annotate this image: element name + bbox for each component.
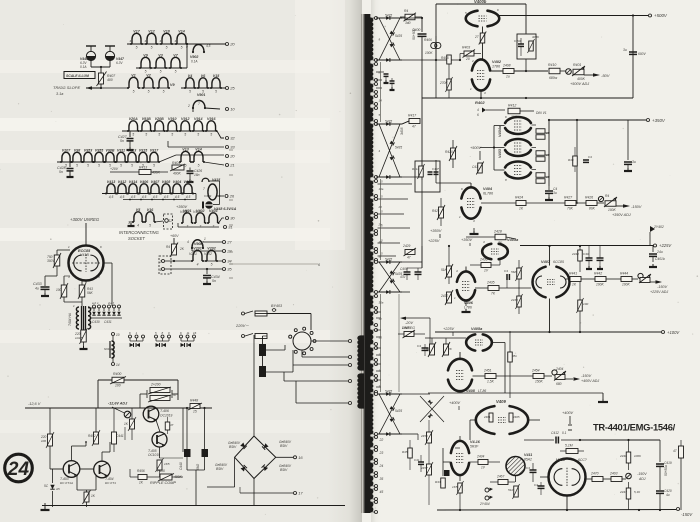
- resistor far right column: [680, 440, 682, 446]
- svg-text:20: 20: [378, 205, 383, 209]
- capacitor C427 5n: [129, 131, 131, 137]
- wire arrow -150V +350V ADJ: [616, 205, 624, 207]
- svg-text:33: 33: [230, 145, 235, 150]
- svg-text:+350V: +350V: [430, 228, 442, 233]
- wire left column y318: [429, 318, 431, 344]
- resistor 2403: [611, 477, 622, 482]
- svg-text:R427: R427: [564, 196, 572, 200]
- terminal +100V: [662, 331, 665, 334]
- wire riser between bridges a: [380, 62, 382, 122]
- tube V404 6L786: [461, 187, 480, 198]
- wire riser between bridges c: [380, 294, 382, 392]
- resistor 220 1W vertical: [48, 434, 53, 446]
- terminal 27: [223, 241, 226, 244]
- wire row B: [136, 67, 187, 69]
- wire arrow -50V: [584, 74, 593, 76]
- resistor 2470: [592, 477, 603, 482]
- svg-text:V405a: V405a: [507, 237, 519, 242]
- winding V409 vertical oval: [208, 184, 217, 200]
- tube V406 L786: [457, 271, 475, 281]
- terminal +350V: [647, 119, 650, 122]
- terminal +500V: [649, 14, 652, 17]
- terminal 26: [225, 195, 228, 198]
- svg-text:V405a: V405a: [471, 326, 483, 331]
- wire frame V409 to lamp: [209, 180, 220, 182]
- svg-text:+500V ADJ: +500V ADJ: [570, 82, 589, 86]
- transformer T401 core: [81, 306, 83, 330]
- svg-text:5: 5: [76, 164, 78, 168]
- wire regulator top loop: [98, 379, 178, 381]
- wire arrow -150V 225adj: [650, 281, 656, 283]
- svg-text:+225V ADJ: +225V ADJ: [650, 290, 668, 294]
- svg-text:50+50u: 50+50u: [412, 28, 416, 40]
- terminal 31: [224, 226, 227, 229]
- svg-text:4,5: 4,5: [186, 195, 191, 199]
- tube V408 LT86: [448, 359, 472, 371]
- transformer TR core lamination lines: [361, 14, 363, 513]
- wire tube grid left: [56, 250, 58, 255]
- potentiometer R404 400K: [172, 165, 184, 170]
- svg-text:6CC?: 6CC?: [578, 458, 587, 462]
- svg-text:1H1B: 1H1B: [75, 336, 83, 340]
- choke winding primary upper: [259, 344, 266, 356]
- svg-text:2470: 2470: [590, 472, 599, 476]
- svg-text:BStV: BStV: [280, 468, 288, 472]
- svg-text:V408: V408: [466, 389, 476, 393]
- svg-text:47: 47: [407, 256, 411, 260]
- svg-text:R442: R442: [594, 272, 602, 276]
- resistor R4 100K vertical: [61, 285, 67, 297]
- svg-text:270K: 270K: [439, 81, 448, 85]
- pot circle -150: [626, 473, 632, 479]
- wire V407 bottom to +100V rail: [549, 299, 551, 333]
- transistor T404 OC KT1: [94, 461, 111, 478]
- wire riser right d: [398, 294, 400, 392]
- resistor 2408 1u: [503, 69, 514, 74]
- svg-text:C441: C441: [116, 434, 124, 438]
- wires tube stack right resistors: [532, 124, 537, 126]
- svg-text:1: 1: [204, 237, 206, 241]
- svg-text:2461: 2461: [483, 415, 491, 419]
- resistor 750 300V: [54, 255, 60, 266]
- wire diamond bottom to ground rail: [253, 479, 255, 506]
- box network C404 R404: [517, 34, 536, 59]
- resistor R456: [138, 475, 147, 480]
- svg-text:14: 14: [116, 363, 120, 367]
- spark-gap diode pairs row: [129, 335, 132, 338]
- wire right vertical from rail: [182, 408, 184, 452]
- resistor 2436 1V: [481, 263, 491, 268]
- fuse BY403 upper: [255, 311, 267, 316]
- svg-text:C41: C41: [414, 458, 420, 462]
- svg-text:1K5: 1K5: [452, 485, 458, 489]
- svg-text:10: 10: [116, 333, 120, 337]
- wire caps to ground rail: [186, 457, 188, 470]
- svg-text:R444: R444: [620, 272, 628, 276]
- terminal 33: [226, 146, 229, 149]
- svg-text:+350V ADJ: +350V ADJ: [612, 213, 631, 217]
- svg-text:3u: 3u: [632, 160, 636, 164]
- edge ticks left page margin: [229, 149, 233, 151]
- svg-text:5435: 5435: [395, 146, 402, 150]
- svg-text:2467: 2467: [496, 475, 505, 479]
- svg-text:21: 21: [229, 163, 234, 168]
- box network R414 C407 C408: [415, 161, 440, 192]
- svg-text:V412: V412: [118, 180, 126, 184]
- svg-text:5: 5: [211, 263, 213, 267]
- svg-text:R45: R45: [402, 450, 408, 454]
- wire diamond right to terminal 16: [276, 456, 293, 458]
- svg-text:20: 20: [229, 154, 235, 159]
- svg-text:5: 5: [158, 133, 160, 137]
- svg-text:C440: C440: [179, 462, 183, 470]
- svg-text:10: 10: [230, 107, 235, 112]
- ground for V5: [129, 221, 133, 223]
- svg-text:20: 20: [465, 57, 470, 61]
- svg-text:5: 5: [132, 133, 134, 137]
- svg-text:4: 4: [187, 240, 189, 244]
- svg-text:R426: R426: [585, 196, 593, 200]
- svg-text:5: 5: [163, 90, 165, 94]
- -12.6V rail: [25, 407, 212, 409]
- resistor 56K right of V406: [517, 268, 522, 279]
- svg-text:2: 2: [159, 260, 162, 264]
- tube stack V404a: [505, 117, 531, 123]
- capacitor C419 50+50u: [659, 440, 661, 462]
- svg-text:-150V: -150V: [657, 285, 668, 289]
- svg-text:220V∼: 220V∼: [235, 323, 249, 328]
- capacitor C420 4u: [656, 490, 664, 492]
- svg-text:+225V: +225V: [428, 238, 440, 243]
- resistor 5102 vertical: [514, 486, 519, 497]
- svg-text:BStV: BStV: [216, 467, 224, 471]
- resistor R417: [409, 119, 420, 124]
- wire verticals to bottom rail: [49, 408, 51, 434]
- svg-text:C4: C4: [417, 344, 421, 348]
- svg-text:80K: 80K: [589, 207, 596, 211]
- half-turn V902: [193, 45, 204, 53]
- mains switch upper contact: [242, 312, 245, 315]
- svg-text:5: 5: [98, 164, 100, 168]
- potentiometer R445: [640, 278, 650, 283]
- svg-text:V917: V917: [150, 148, 159, 152]
- capacitor C440 electrolytic: [186, 408, 188, 449]
- wire left frame: [435, 60, 437, 98]
- terminal 20: [226, 43, 229, 46]
- svg-text:56K: 56K: [511, 270, 517, 274]
- svg-text:5: 5: [145, 133, 147, 137]
- svg-text:C430: C430: [92, 320, 100, 324]
- +100V rail: [435, 331, 661, 333]
- wire trigg slope arrow: [86, 87, 101, 89]
- wires box to rails: [525, 33, 527, 34]
- svg-text:1,5K: 1,5K: [487, 380, 495, 384]
- svg-text:V902: V902: [190, 55, 198, 59]
- svg-text:C40: C40: [583, 252, 589, 256]
- heater chain row B: V9 V3 V7: [141, 57, 150, 68]
- wire diamond left vertex down: [234, 457, 236, 487]
- svg-text:4,5: 4,5: [109, 195, 114, 199]
- svg-text:V912: V912: [181, 117, 189, 121]
- wire to terminal 26: [217, 195, 224, 197]
- svg-text:11: 11: [187, 331, 190, 335]
- resistor pair R41a: [536, 129, 545, 134]
- svg-text:5435: 5435: [385, 258, 392, 262]
- transistor T405: [152, 432, 167, 447]
- tube stack V404c: [505, 162, 531, 168]
- heater chain row A: V17 V12 V18 V14: [132, 33, 141, 44]
- wire row D bus: [122, 130, 217, 132]
- winding V415 top turn: [202, 178, 209, 182]
- svg-text:30a: 30a: [379, 301, 384, 305]
- wire tube right to frame: [103, 262, 112, 264]
- svg-text:+300V UNREG: +300V UNREG: [70, 217, 100, 222]
- svg-text:2Y404: 2Y404: [479, 502, 490, 506]
- svg-text:15: 15: [193, 410, 197, 414]
- svg-text:R452: R452: [88, 434, 96, 438]
- svg-text:R424: R424: [515, 196, 523, 200]
- heater V5 V16 loops: [134, 212, 142, 222]
- svg-text:V911: V911: [117, 148, 125, 152]
- lamp V448 6.3V: [202, 202, 204, 209]
- wire V408 anode up: [459, 352, 461, 359]
- wire row F lower rail: [123, 199, 196, 201]
- heater chain row C right: V4 V6 V15: [186, 78, 194, 88]
- svg-text:V202: V202: [207, 246, 215, 250]
- primary winding upper on core: [358, 336, 364, 370]
- svg-text:5,1K: 5,1K: [634, 490, 641, 494]
- wire under +100V rail: [509, 332, 511, 398]
- resistor R447 5.1K lower: [626, 488, 631, 499]
- terminal 10 small: [112, 333, 115, 336]
- svg-text:V406: V406: [464, 301, 474, 305]
- svg-text:5: 5: [149, 224, 151, 228]
- svg-text:2432: 2432: [440, 294, 448, 298]
- resistor 47 emitter T406: [165, 422, 170, 430]
- terminal -150V: [677, 508, 680, 511]
- svg-text:5: 5: [197, 133, 199, 137]
- svg-text:5: 5: [133, 90, 135, 94]
- wires socket to loops and terminals 34 35: [165, 260, 192, 262]
- resistor R43 56K vertical: [79, 285, 85, 297]
- resistor 2449 column: [578, 300, 583, 311]
- svg-text:5435: 5435: [385, 120, 392, 124]
- capacitor C426 18n: [189, 168, 191, 171]
- svg-text:430K: 430K: [152, 171, 161, 175]
- bridge rectifier 1: [376, 17, 402, 19]
- wires tube stack left: [494, 125, 505, 127]
- resistor R452 vertical: [94, 432, 99, 444]
- wire base line T403: [49, 446, 51, 469]
- svg-text:5: 5: [166, 46, 168, 50]
- svg-text:4: 4: [477, 108, 479, 112]
- pot 2445: [404, 332, 414, 337]
- resistor R453 vertical: [112, 432, 117, 444]
- capacitor C434 5n: [206, 269, 208, 274]
- resistor 2434 1V: [478, 460, 488, 465]
- capacitors C405 47u pair: [421, 246, 423, 268]
- svg-text:C407: C407: [432, 167, 439, 171]
- resistor 2451 1K: [485, 374, 496, 379]
- circled page number 24: [5, 454, 33, 482]
- svg-text:V955: V955: [95, 148, 104, 152]
- wire feedback rail y98: [422, 97, 633, 99]
- bridge rectifier 3: [378, 261, 402, 263]
- capacitor C407 in box: [428, 171, 433, 173]
- resistor 2x on that wire: [480, 33, 485, 43]
- svg-text:4,5: 4,5: [131, 195, 136, 199]
- svg-text:20: 20: [229, 42, 235, 47]
- svg-text:4u: 4u: [666, 493, 670, 497]
- resistor R405 column: [447, 55, 452, 64]
- svg-text:300K: 300K: [532, 35, 540, 39]
- svg-text:2439: 2439: [510, 298, 518, 302]
- svg-text:C4: C4: [588, 155, 592, 159]
- svg-text:27: 27: [474, 35, 479, 39]
- socket pins 2 and 1: [159, 256, 171, 274]
- svg-text:26: 26: [229, 194, 235, 199]
- heater chain row D: V20A V91B V20B V910 V912 V914 V916: [129, 121, 138, 131]
- svg-text:27: 27: [226, 240, 232, 245]
- ground top mid: [473, 231, 475, 234]
- svg-text:5: 5: [210, 133, 212, 137]
- wire bridge3 outputs: [402, 261, 422, 263]
- svg-text:6: 6: [477, 113, 479, 117]
- svg-text:100: 100: [115, 384, 121, 388]
- svg-text:SCALE ILLUM: SCALE ILLUM: [66, 74, 89, 78]
- svg-text:V404: V404: [173, 180, 181, 184]
- svg-text:4,5: 4,5: [142, 195, 147, 199]
- svg-text:32: 32: [230, 136, 235, 141]
- svg-text:47: 47: [673, 449, 677, 453]
- wire V411: [515, 476, 517, 483]
- wire riser between bridges b: [380, 179, 382, 260]
- svg-text:V91B: V91B: [142, 117, 151, 121]
- transformer TR core bar: [364, 14, 370, 513]
- svg-text:5: 5: [189, 90, 191, 94]
- svg-text:5435: 5435: [385, 390, 392, 394]
- svg-text:16: 16: [298, 455, 303, 460]
- svg-text:5: 5: [171, 133, 173, 137]
- svg-text:5: 5: [198, 164, 200, 168]
- svg-text:2429: 2429: [402, 244, 411, 248]
- svg-text:2428: 2428: [493, 230, 502, 234]
- ground mid right: [602, 393, 604, 399]
- svg-text:5: 5: [87, 164, 89, 168]
- svg-text:V915: V915: [139, 148, 148, 152]
- svg-text:50+50u: 50+50u: [664, 465, 668, 476]
- svg-text:1u: 1u: [506, 75, 510, 79]
- svg-text:TR-4401/EMG-1546/: TR-4401/EMG-1546/: [593, 422, 676, 433]
- svg-text:V901: V901: [197, 93, 205, 97]
- terminal 30: [226, 217, 229, 220]
- resistor R436: [441, 478, 446, 488]
- svg-text:-150V: -150V: [681, 512, 693, 517]
- capacitor C433 4u: [45, 275, 57, 277]
- wire terminal 17 line: [240, 492, 293, 494]
- svg-text:V913: V913: [128, 148, 136, 152]
- wire V407 right resistor row: [566, 278, 570, 280]
- svg-text:V12: V12: [148, 29, 154, 33]
- wire 449 column: [448, 246, 450, 258]
- svg-text:300V: 300V: [47, 259, 56, 263]
- svg-text:47: 47: [412, 125, 416, 129]
- svg-text:4,5: 4,5: [153, 195, 158, 199]
- resistor R427 70K: [565, 201, 576, 206]
- capacitor C416: [418, 461, 424, 463]
- capacitor small black: [444, 470, 450, 476]
- pilot lamp V447 6.3V: [105, 45, 115, 47]
- wire stack right rail: [548, 120, 550, 186]
- svg-text:V914: V914: [194, 117, 202, 121]
- heater row G: V401 V402 V403: [183, 213, 192, 223]
- svg-text:45: 45: [380, 490, 384, 494]
- svg-text:2435: 2435: [486, 281, 495, 285]
- wire 422 column lower: [421, 180, 423, 268]
- svg-text:R402: R402: [475, 100, 485, 105]
- wire row E to terminals: [159, 155, 176, 162]
- capacitor C404 in box: [518, 43, 524, 45]
- wire V402 plate right: [491, 70, 549, 72]
- svg-text:2456: 2456: [420, 434, 428, 438]
- svg-text:17: 17: [298, 491, 303, 496]
- svg-text:R414: R414: [412, 167, 420, 171]
- wires V406: [465, 267, 467, 272]
- wires V409: [470, 419, 476, 421]
- wires V90B to terminals 27 23: [203, 241, 222, 243]
- svg-text:C431: C431: [104, 320, 112, 324]
- svg-text:V407: V407: [151, 180, 160, 184]
- capacitor C412 47: [478, 163, 483, 173]
- svg-text:R40: R40: [568, 158, 574, 162]
- resistor R407 mid with cap: [573, 156, 578, 166]
- wires V404 frame: [470, 183, 472, 188]
- svg-text:-12,6 V: -12,6 V: [28, 402, 41, 406]
- svg-text:2434: 2434: [476, 455, 485, 459]
- svg-text:0.1A: 0.1A: [80, 65, 87, 69]
- wires secondary taps to regulator stages: [378, 183, 413, 185]
- svg-text:2404: 2404: [555, 367, 564, 371]
- svg-text:100: 100: [56, 288, 62, 292]
- svg-text:2457: 2457: [420, 466, 428, 470]
- resistors 2x200 47 parallel pair: [146, 390, 148, 398]
- heater V201 V202 loops: [193, 250, 202, 261]
- svg-text:-150V: -150V: [581, 374, 592, 378]
- svg-text:2448: 2448: [571, 252, 579, 256]
- resistor pair R41b: [536, 151, 545, 156]
- svg-text:5n: 5n: [120, 139, 124, 143]
- resistor R426 80K: [586, 201, 597, 206]
- svg-text:V402: V402: [193, 210, 201, 214]
- svg-text:BY403: BY403: [271, 304, 283, 308]
- svg-text:V14: V14: [195, 147, 201, 151]
- svg-text:V411: V411: [524, 453, 532, 457]
- resistor 2456 vertical: [427, 432, 432, 443]
- svg-text:3405: 3405: [400, 127, 404, 135]
- svg-text:V201: V201: [193, 246, 201, 250]
- wire row C: [97, 87, 128, 89]
- svg-text:R43: R43: [435, 480, 441, 484]
- svg-text:510: 510: [508, 488, 513, 492]
- svg-text:5435: 5435: [395, 409, 402, 413]
- fuse lower: [255, 334, 267, 339]
- svg-text:5: 5: [151, 46, 153, 50]
- svg-text:V408: V408: [162, 180, 170, 184]
- svg-text:V403: V403: [498, 148, 502, 158]
- svg-text:R448: R448: [190, 399, 198, 403]
- transformer TR secondary windings: [367, 18, 373, 60]
- terminal 20b: [226, 155, 229, 158]
